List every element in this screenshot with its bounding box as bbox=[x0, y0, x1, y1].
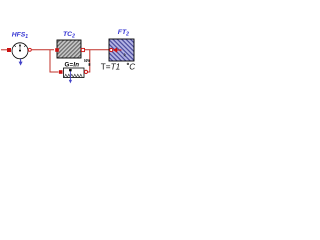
sensor HFS1 body bbox=[12, 43, 28, 59]
svg-text:C: C bbox=[129, 63, 135, 72]
gauge tick left 45deg bbox=[14, 45, 16, 47]
heat port (filled) at convection left bbox=[59, 70, 63, 74]
svg-text:W: W bbox=[84, 58, 89, 63]
gauge needle bbox=[19, 46, 21, 51]
needle arrowhead bbox=[19, 44, 21, 47]
svg-text:TC2: TC2 bbox=[63, 31, 75, 40]
input dot bbox=[69, 69, 72, 71]
input arrow (blue) bbox=[69, 71, 71, 80]
wire HFS to TC bbox=[32, 49, 54, 51]
svg-text:T=T1: T=T1 bbox=[101, 63, 120, 72]
thermal conductor TC2 body bbox=[57, 40, 81, 58]
center dot bbox=[19, 50, 21, 52]
fins (sawtooth) bbox=[64, 74, 82, 77]
heat port (open) at TC right bbox=[81, 48, 84, 51]
convection element body bbox=[64, 68, 85, 78]
svg-text:G=In: G=In bbox=[65, 61, 80, 68]
heat port (filled) at HFS left bbox=[7, 48, 11, 52]
degree symbol bbox=[127, 63, 129, 65]
svg-text:FT2: FT2 bbox=[118, 29, 129, 38]
wire TC to FT bbox=[85, 49, 110, 51]
wire junction drop right bbox=[88, 50, 90, 72]
port (open) at FT left bbox=[110, 48, 113, 51]
fixed temperature FT2 body bbox=[109, 39, 134, 61]
heat port (filled) at TC left bbox=[55, 48, 59, 52]
output arrow (blue) below sensor bbox=[20, 59, 22, 62]
wire junction drop left bbox=[50, 50, 59, 72]
heat port (open) at convection right bbox=[84, 70, 87, 73]
port (open) at HFS right bbox=[28, 48, 31, 51]
arrow inside FT (pointing left) bbox=[113, 47, 117, 52]
gauge tick right 45deg bbox=[24, 45, 26, 47]
wire left stub bbox=[1, 49, 8, 51]
svg-text:HFS1: HFS1 bbox=[12, 31, 29, 40]
